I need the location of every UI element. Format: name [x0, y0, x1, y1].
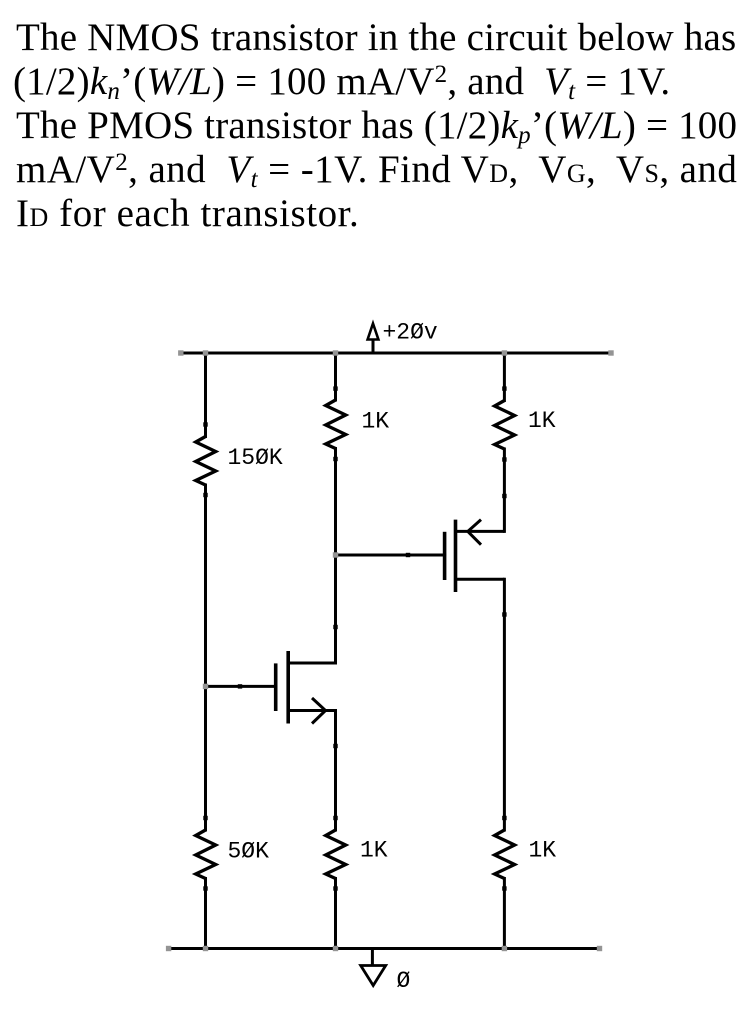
svg-text:1K: 1K	[362, 409, 390, 435]
resistor R3 1K top middle	[326, 400, 346, 449]
svg-text:1K: 1K	[529, 838, 557, 864]
transistor Q1 NMOS	[276, 651, 336, 724]
node bottom rail / right branch	[502, 946, 507, 951]
node top rail / right branch	[502, 350, 507, 355]
node top rail left end	[178, 350, 183, 355]
svg-text:1K: 1K	[360, 838, 388, 864]
resistor R6 1K bottom right	[495, 830, 515, 879]
resistor R4 1K bottom middle	[326, 830, 346, 879]
wire NMOS source down	[334, 711, 337, 831]
wire left branch lower	[204, 879, 207, 949]
node bottom rail left end	[166, 946, 171, 951]
wire left branch upper	[204, 353, 207, 437]
wire middle branch lower	[334, 879, 337, 949]
wire PMOS gate	[336, 554, 445, 557]
node PMOS gate / middle branch	[333, 552, 338, 557]
R1 terminal pips	[203, 422, 207, 497]
Q1 pin pips	[238, 625, 338, 748]
R2 terminal pips	[203, 816, 207, 891]
wire left branch middle	[204, 485, 207, 830]
resistor R2 50K	[196, 830, 216, 879]
wire right branch upper	[503, 353, 506, 401]
Q1 drain lead	[288, 662, 335, 665]
ground symbol	[361, 949, 386, 986]
node NMOS gate / left branch	[203, 684, 208, 689]
wire middle branch upper	[334, 353, 337, 400]
wire bottom rail ground	[169, 947, 600, 950]
node squares (gray handles)	[166, 350, 614, 951]
Q2 drain lead	[456, 578, 505, 581]
R4 terminal pips	[333, 816, 337, 891]
node top rail right end	[608, 350, 613, 355]
node bottom rail / middle branch	[333, 946, 338, 951]
R5 terminal pips	[502, 386, 506, 461]
wire right branch to PMOS source	[503, 449, 506, 531]
wire top rail +20V	[181, 352, 611, 355]
svg-text:15ØK: 15ØK	[228, 445, 283, 471]
wire right branch lower	[503, 879, 506, 949]
svg-text:5ØK: 5ØK	[228, 839, 270, 865]
node top rail / middle branch	[333, 350, 338, 355]
Q2 source arrow	[468, 520, 481, 545]
transistor Q2 PMOS	[445, 520, 505, 592]
wire middle branch to NMOS drain	[334, 449, 337, 664]
node bottom rail right end	[597, 946, 602, 951]
Q1 channel bar	[286, 651, 290, 724]
Q1 source arrow	[312, 698, 326, 724]
node bottom rail / left branch	[203, 946, 208, 951]
Q2 channel bar	[454, 520, 458, 592]
Q1 source lead	[288, 709, 335, 712]
svg-text:Ø: Ø	[397, 968, 411, 994]
svg-text:1K: 1K	[528, 408, 556, 434]
power supply +20V symbol	[368, 324, 379, 354]
R3 terminal pips	[333, 386, 337, 461]
wire NMOS gate	[206, 685, 276, 688]
Q2 gate bar	[443, 532, 447, 580]
resistor R5 1K top right	[495, 401, 515, 450]
node top rail / left branch	[203, 350, 208, 355]
svg-text:+2Øv: +2Øv	[383, 320, 438, 346]
problem statement text	[16, 16, 754, 236]
Q2 source lead	[456, 530, 505, 533]
Q2 pin pips	[406, 494, 507, 617]
resistor R1 150K	[196, 437, 216, 486]
Q1 gate bar	[274, 663, 278, 711]
R6 terminal pips	[502, 816, 506, 891]
wire PMOS drain down	[503, 579, 506, 830]
